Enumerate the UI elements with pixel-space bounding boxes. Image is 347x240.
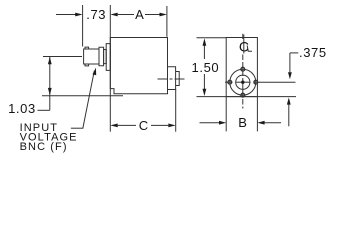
- svg-text:.375: .375: [299, 45, 327, 60]
- svg-text:C: C: [239, 39, 249, 55]
- svg-text:BNC (F): BNC (F): [20, 141, 68, 153]
- svg-text:B: B: [238, 115, 247, 130]
- svg-text:C: C: [139, 118, 148, 133]
- svg-text:1.03: 1.03: [8, 101, 36, 116]
- svg-text:A: A: [135, 7, 144, 22]
- svg-text:1.50: 1.50: [192, 60, 220, 75]
- svg-text:.73: .73: [86, 7, 106, 22]
